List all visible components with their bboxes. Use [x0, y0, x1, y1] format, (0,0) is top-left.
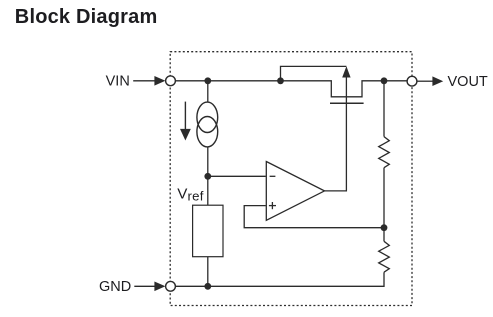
node dot feedback [381, 224, 388, 231]
svg-text:Vref: Vref [177, 186, 203, 204]
svg-text:VIN: VIN [106, 73, 130, 89]
svg-text:VOUT: VOUT [448, 74, 488, 90]
current source I1 [197, 102, 218, 147]
IC boundary dashed box [170, 52, 412, 306]
Vref block [193, 205, 223, 257]
wire R1 to feedback node [383, 168, 385, 228]
wire Vref bottom [207, 257, 209, 287]
resistor R2 [379, 241, 390, 272]
wire VOUT lead [417, 80, 432, 82]
node dot VOUT/divider [381, 77, 388, 84]
wire feedback node to R2 [383, 228, 385, 242]
wire VIN rail with Q1 source/drain path [176, 81, 407, 97]
pin VIN circle [166, 76, 176, 86]
arrowhead GND [154, 282, 165, 292]
wire current source top [207, 81, 209, 102]
wire current source to Vref [207, 147, 209, 205]
node dot VIN/current source [204, 77, 211, 84]
op-amp U1 error amplifier [266, 162, 324, 221]
wire R2 to GND rail [176, 272, 384, 286]
op-amp plus sign [269, 202, 276, 209]
transistor Q1 gate bar [330, 102, 364, 104]
wire VOUT node to R1 [383, 81, 385, 137]
arrowhead VOUT [432, 76, 443, 86]
node dot Vref/inverting input [204, 173, 211, 180]
current source arrow [180, 102, 191, 141]
wire VIN lead [133, 80, 156, 82]
wire inverting input [208, 175, 266, 177]
op-amp minus sign [270, 175, 276, 177]
transistor Q1 body arrow [342, 66, 350, 77]
node dot GND/Vref [204, 283, 211, 290]
wire feedback to non-inverting input [244, 206, 384, 228]
pin VOUT circle [407, 76, 417, 86]
resistor R1 [379, 137, 390, 168]
wire top loop to Q1 body [281, 66, 347, 80]
node dot VIN/top loop [277, 77, 284, 84]
transistor Q1 body line and gate to op-amp output [325, 70, 347, 191]
svg-text:GND: GND [99, 279, 131, 295]
svg-text:Block Diagram: Block Diagram [15, 6, 158, 28]
arrowhead VIN [154, 76, 165, 86]
wire GND lead [134, 285, 156, 287]
pin GND circle [166, 281, 176, 291]
